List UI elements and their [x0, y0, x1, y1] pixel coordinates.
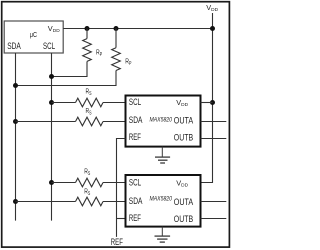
wire: SDA bus [15, 53, 17, 221]
svg-text:SDA: SDA [7, 41, 21, 51]
node: SCL bus / RP1 [49, 74, 54, 79]
resistor RS2 [16, 117, 126, 126]
node: VDD / box1 [210, 100, 215, 105]
svg-text:SCL: SCL [129, 178, 141, 188]
wire: box2 OUTB [201, 218, 227, 220]
node: SCL bus / RS3 [49, 180, 54, 185]
svg-text:REF: REF [129, 132, 142, 142]
microcontroller uC box [4, 21, 63, 53]
resistor RS1 [52, 98, 126, 107]
svg-text:SCL: SCL [129, 97, 141, 107]
wire: box1 OUTB [201, 138, 227, 140]
wire: VDD vertical line [201, 13, 213, 183]
node: junction VDD rail / RP2 [114, 26, 119, 31]
svg-text:OUTB: OUTB [174, 133, 194, 143]
resistor RP1 [52, 29, 92, 77]
wire: VDD rail from uC to supply line [63, 28, 212, 30]
ground under box1 [155, 147, 170, 163]
wire: box1 VDD pin [201, 102, 213, 104]
svg-text:SDA: SDA [129, 115, 143, 125]
wire: box2 REF pin [117, 218, 126, 220]
node: SDA bus / RP2 [13, 83, 18, 88]
border frame [2, 2, 230, 247]
svg-text:OUTA: OUTA [174, 197, 193, 207]
svg-text:SDA: SDA [129, 196, 143, 206]
node: SDA bus / RS4 [13, 199, 18, 204]
resistor RS4 [16, 197, 126, 206]
node: SDA bus / RS2 [13, 119, 18, 124]
svg-text:SCL: SCL [43, 41, 55, 51]
DAC U1 MAX5820 box [126, 96, 201, 147]
node: junction VDD rail / RP1 [85, 26, 90, 31]
node: junction VDD rail / supply [210, 26, 215, 31]
DAC U2 MAX5820 box [126, 175, 201, 227]
svg-text:OUTA: OUTA [174, 116, 193, 126]
svg-text:REF: REF [111, 237, 124, 247]
svg-text:MAX5820: MAX5820 [150, 117, 173, 124]
node: SCL bus / RS1 [49, 100, 54, 105]
svg-text:MAX5820: MAX5820 [150, 196, 173, 203]
ground under box2 [155, 227, 171, 243]
wire: box1 OUTA [201, 121, 227, 123]
wire: SCL bus [51, 53, 53, 221]
svg-text:μC: μC [30, 30, 38, 39]
resistor RP2 [16, 28, 121, 85]
wire: box2 OUTA [201, 201, 227, 203]
wire: REF net [117, 139, 126, 237]
svg-text:OUTB: OUTB [174, 214, 194, 224]
svg-text:REF: REF [129, 213, 142, 223]
resistor RS3 [52, 178, 126, 187]
